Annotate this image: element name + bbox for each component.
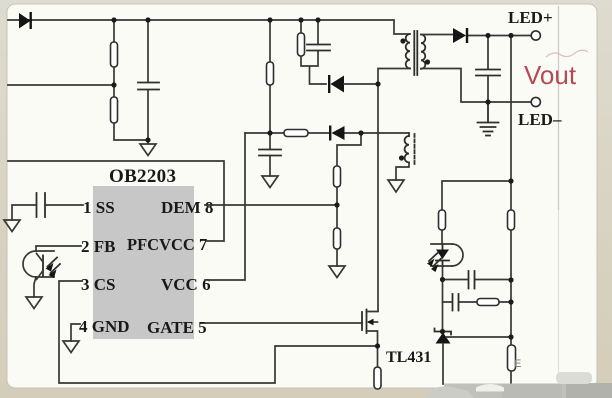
resistor R-opto bbox=[439, 210, 446, 230]
svg-text:3 CS: 3 CS bbox=[81, 275, 115, 294]
wire: startup resistor branch bbox=[269, 20, 271, 133]
svg-text:Vout: Vout bbox=[524, 60, 577, 90]
node tl431 cathode bbox=[440, 329, 445, 334]
node clamp-drain bbox=[375, 81, 380, 86]
wire: tl431 cathode to divider bbox=[446, 336, 511, 338]
svg-text:OB2203: OB2203 bbox=[109, 166, 176, 187]
scan crease line bbox=[558, 6, 560, 210]
core lines bbox=[413, 31, 415, 75]
diode D-clamp bbox=[328, 75, 344, 93]
wire: comp cap1 branch bbox=[443, 279, 512, 281]
diode D-vcc bbox=[329, 126, 345, 141]
wire: VCC node runs bbox=[245, 132, 409, 134]
diode D-input bbox=[19, 12, 32, 29]
wire: secondary top to output bbox=[421, 35, 531, 36]
svg-text:4 GND: 4 GND bbox=[79, 317, 130, 336]
node mosfet source bbox=[375, 343, 380, 348]
node LED- cap bbox=[485, 99, 490, 104]
svg-text:LED–: LED– bbox=[518, 110, 562, 129]
ground input-cap bbox=[140, 144, 156, 156]
ground dem bbox=[329, 266, 345, 278]
node opto branch bbox=[508, 178, 513, 183]
primary phase dot bbox=[400, 38, 405, 43]
wire: opto branch top bbox=[442, 181, 511, 244]
transformer T1 bbox=[400, 31, 430, 75]
node LED+ cap bbox=[485, 33, 490, 38]
resistor R-div-top bbox=[111, 42, 118, 67]
wire: input divider branch bbox=[114, 20, 148, 140]
node DEM top bbox=[358, 130, 363, 135]
resistor R-vcc bbox=[284, 130, 308, 137]
node LED+ divider bbox=[508, 33, 513, 38]
diode D-output bbox=[453, 28, 468, 43]
wire: pin4 GND bbox=[71, 324, 80, 341]
wire: opto emitter to ground bbox=[34, 277, 36, 297]
ground pin4 bbox=[63, 341, 79, 353]
wire: snubber branch bbox=[301, 20, 326, 84]
wire: ss cap to ground bbox=[12, 205, 37, 220]
node comp1 right bbox=[508, 277, 513, 282]
wire: feedback divider main bbox=[510, 36, 512, 385]
wire: vcc cap branch bbox=[269, 133, 271, 176]
wire: top main bus bbox=[8, 20, 409, 34]
terminal LED+ bbox=[531, 31, 540, 40]
node VCC bbox=[267, 130, 272, 135]
svg-text:E: E bbox=[514, 358, 521, 370]
resistor R-dem2 bbox=[334, 228, 341, 249]
ground ss bbox=[4, 220, 20, 232]
node cap-ground bbox=[145, 137, 150, 142]
svg-text:LED+: LED+ bbox=[508, 8, 553, 27]
wire: opto led down bbox=[442, 266, 444, 330]
primary winding bbox=[406, 34, 410, 68]
ground vcc-cap bbox=[262, 176, 278, 188]
regulator TL431 bbox=[435, 329, 452, 385]
svg-text:DEM 8: DEM 8 bbox=[161, 198, 213, 217]
ground aux bbox=[388, 180, 404, 192]
wire: pin6 VCC bbox=[205, 133, 245, 280]
watermark band bbox=[428, 372, 612, 398]
svg-text:VCC 6: VCC 6 bbox=[161, 275, 211, 294]
node divider tap bbox=[111, 82, 116, 87]
secondary phase dot bbox=[425, 59, 430, 64]
node comp1 left bbox=[440, 277, 445, 282]
capacitor C-comp2 bbox=[453, 294, 459, 311]
aux winding L-aux bbox=[396, 133, 415, 180]
ground opto bbox=[26, 297, 42, 309]
capacitor C-output bbox=[476, 70, 500, 76]
terminal LED- bbox=[531, 97, 540, 106]
squiggle above Vout bbox=[546, 50, 588, 57]
wire: input cap branch bbox=[147, 20, 149, 144]
opto transistor U2a bbox=[23, 251, 60, 280]
opto LED U2b bbox=[427, 244, 463, 272]
wire: secondary bottom to LED- bbox=[421, 69, 531, 103]
capacitor C-ss bbox=[37, 193, 46, 217]
node divider mid bbox=[508, 334, 513, 339]
wire: DEM divider bbox=[337, 133, 361, 266]
capacitor C-vcc bbox=[259, 150, 281, 156]
wire: primary bottom to drain bbox=[378, 69, 410, 312]
wire: pin1 SS bbox=[46, 204, 83, 206]
wire: comp cap2+R branch bbox=[443, 301, 512, 303]
wire: PFCVCC pin7 run bbox=[8, 161, 224, 241]
svg-text:PFCVCC 7: PFCVCC 7 bbox=[127, 235, 207, 254]
node DEM tap bbox=[334, 202, 339, 207]
wire: pin3 CS loop bbox=[59, 281, 378, 383]
wire: pin8 DEM bbox=[205, 204, 337, 206]
secondary winding bbox=[421, 35, 425, 69]
wire: mid left rail bbox=[8, 84, 114, 86]
svg-text:GATE 5: GATE 5 bbox=[147, 318, 207, 337]
svg-text:2 FB: 2 FB bbox=[81, 237, 115, 256]
wire: pin2 FB bbox=[36, 246, 81, 251]
resistor R-fb-upper bbox=[508, 210, 515, 230]
resistor R-startup bbox=[267, 62, 274, 85]
resistor R-dem1 bbox=[334, 166, 341, 187]
svg-text:1 SS: 1 SS bbox=[83, 198, 115, 217]
resistor R-div-bot bbox=[111, 97, 118, 123]
capacitor C-comp1 bbox=[469, 271, 475, 289]
wire: source to sense resistor bbox=[377, 346, 379, 367]
wire: output cap branch bbox=[487, 36, 489, 103]
transistor Q1 mosfet bbox=[362, 310, 378, 347]
resistor R-snubber bbox=[298, 33, 305, 56]
IC U1 OB2203 body bbox=[93, 186, 194, 339]
capacitor C-input bbox=[138, 83, 159, 90]
capacitor C-snubber bbox=[307, 45, 330, 51]
ground output (earth) bbox=[478, 102, 499, 136]
wire: pin5 GATE bbox=[204, 322, 362, 324]
wire: clamp to drain bbox=[344, 83, 378, 85]
node comp2 right bbox=[508, 299, 513, 304]
node top bus junctions bbox=[111, 17, 116, 22]
resistor R-fb-lower bbox=[508, 345, 516, 371]
resistor R-sense bbox=[374, 367, 381, 389]
resistor R-comp bbox=[477, 299, 499, 306]
svg-text:TL431: TL431 bbox=[386, 349, 431, 366]
